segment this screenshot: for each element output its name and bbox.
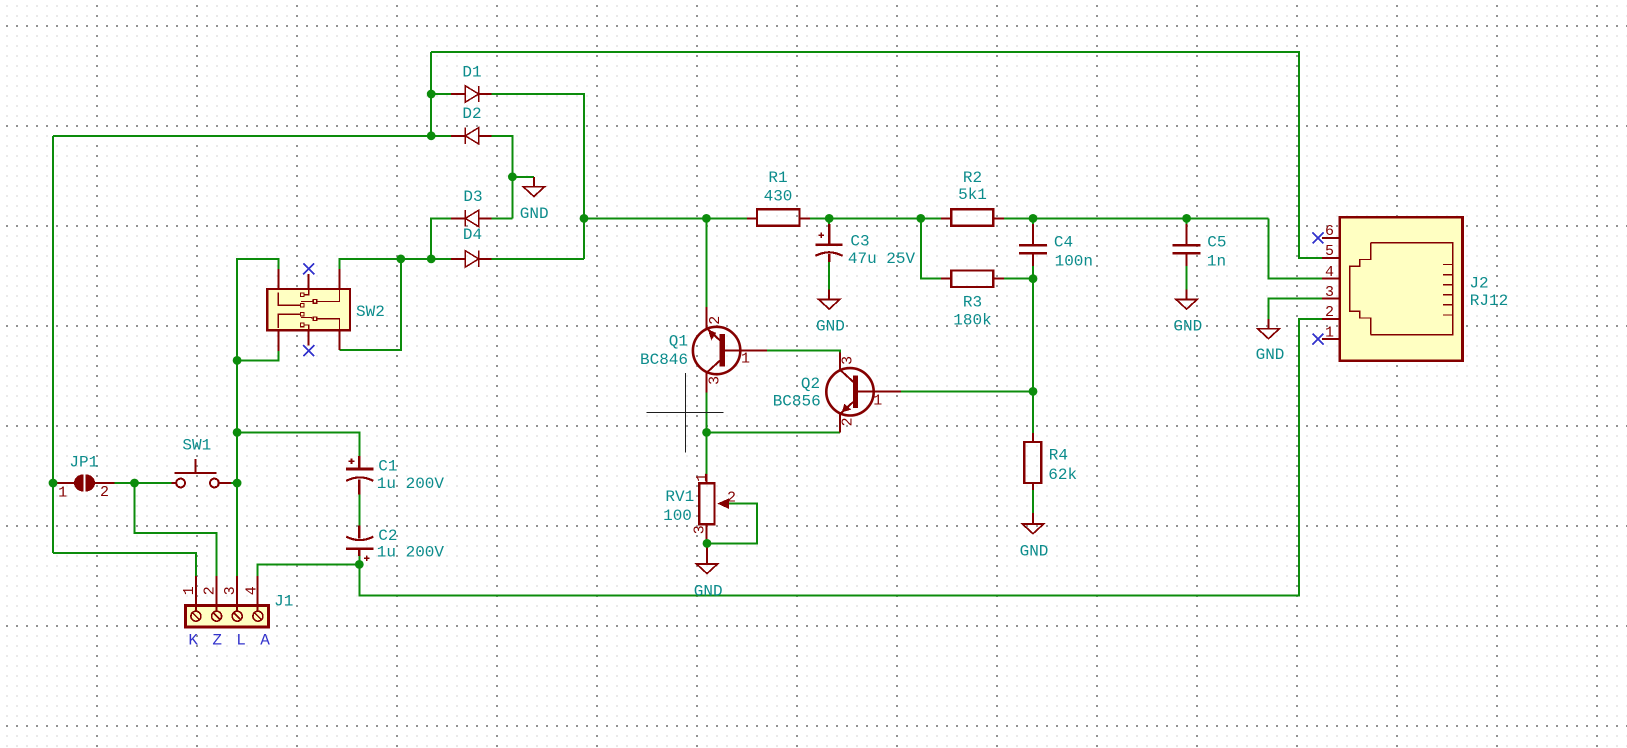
svg-text:1u 200V: 1u 200V: [377, 475, 445, 493]
junction bus left end: [580, 214, 589, 223]
wire C5 top stub: [1186, 218, 1188, 224]
svg-text:6: 6: [1325, 223, 1334, 240]
svg-text:A: A: [260, 632, 270, 650]
svg-text:D1: D1: [462, 64, 481, 82]
diode D3: [451, 210, 492, 226]
ground at J2 pin3: [1258, 319, 1280, 339]
wire C5 bottom: [1186, 262, 1188, 289]
svg-text:3: 3: [839, 356, 856, 365]
wire main bus segment 3: [1004, 217, 1269, 219]
wire D2 right to gnd tap: [492, 136, 513, 219]
potentiometer RV1: [699, 474, 729, 539]
junction Q1 emitter rail: [702, 428, 711, 437]
wire top rail: [431, 52, 1322, 258]
wire left vertical to D1/D2: [430, 52, 432, 136]
wire C3 bottom: [828, 262, 830, 289]
svg-text:100n: 100n: [1055, 252, 1093, 270]
svg-text:R3: R3: [963, 294, 982, 312]
ground under C3: [819, 289, 840, 309]
junction bus / C4: [1029, 214, 1038, 223]
svg-text:47u 25V: 47u 25V: [848, 250, 916, 268]
svg-text:SW2: SW2: [356, 303, 385, 321]
wire Q1 base to Q2: [767, 350, 840, 352]
wire SW1 right to junction: [231, 482, 237, 484]
svg-text:C3: C3: [850, 233, 869, 251]
svg-text:1: 1: [58, 485, 67, 502]
svg-text:C1: C1: [378, 457, 397, 475]
wire Q2 base to junction: [901, 390, 1033, 392]
wire C3 top stub: [828, 218, 830, 224]
svg-text:100: 100: [663, 507, 692, 525]
svg-text:1: 1: [741, 351, 750, 368]
wire D3 right lead: [492, 217, 513, 219]
svg-text:R2: R2: [963, 169, 982, 187]
wire D2 left lead: [431, 135, 452, 137]
ground under R4: [1022, 524, 1043, 534]
svg-text:2: 2: [100, 484, 109, 501]
no-connect X on J2 pin6: [1313, 232, 1324, 243]
svg-text:2: 2: [202, 586, 219, 595]
no-connect X above SW2: [303, 263, 314, 274]
jumper JP1: [53, 474, 115, 491]
resistor R3: [941, 271, 1004, 288]
svg-text:1: 1: [181, 586, 198, 595]
svg-text:GND: GND: [816, 317, 845, 335]
svg-text:C5: C5: [1207, 233, 1226, 251]
cursor crosshair: [646, 373, 723, 453]
wire Q1 emitter down: [706, 392, 708, 432]
junction D2 anode column: [427, 131, 436, 140]
svg-text:RJ12: RJ12: [1470, 292, 1508, 310]
svg-text:SW1: SW1: [182, 436, 211, 454]
wire SW2 right loop down: [340, 259, 401, 350]
diode D4: [451, 251, 492, 267]
junction SW2 left loop: [233, 356, 242, 365]
wire R3 right stub: [1004, 278, 1033, 280]
svg-text:GND: GND: [520, 205, 549, 223]
svg-text:K: K: [188, 632, 198, 650]
switch SW1: [172, 459, 232, 487]
wire down to RV1: [706, 432, 708, 474]
svg-text:R1: R1: [768, 169, 787, 187]
wire bus end to J2 pin4: [1268, 218, 1322, 278]
junction bus / Q1 collector: [702, 214, 711, 223]
junction bus / C3: [825, 214, 834, 223]
wire D1 left: [431, 93, 452, 95]
junction RV1 wiper return: [703, 539, 712, 548]
wire far-left vertical: [52, 136, 54, 553]
wire C2 bottom: [358, 556, 360, 564]
svg-text:5k1: 5k1: [958, 186, 987, 204]
wire D4 right: [492, 258, 584, 260]
wire bottom rail to J2 pin2: [359, 319, 1322, 595]
svg-text:RV1: RV1: [665, 488, 694, 506]
svg-text:2: 2: [1325, 304, 1334, 321]
transistor Q1 BC846: [693, 307, 767, 392]
capacitor C5: [1173, 224, 1201, 266]
wire SW2 bottom-left loop: [237, 351, 278, 360]
svg-text:J2: J2: [1469, 275, 1488, 293]
wire C4 bottom stub: [1032, 266, 1034, 279]
svg-text:Q2: Q2: [801, 375, 820, 393]
svg-text:GND: GND: [1020, 543, 1049, 561]
wire C2 junction to J1 pin4: [258, 564, 360, 576]
svg-text:4: 4: [1325, 264, 1334, 281]
svg-text:GND: GND: [1173, 318, 1202, 336]
svg-text:D3: D3: [463, 188, 482, 206]
svg-text:D4: D4: [463, 226, 482, 244]
junction D4 row / SW2 loop: [396, 255, 405, 264]
wire D3 left corner: [431, 218, 452, 259]
wire C1-C2 link: [358, 494, 360, 525]
no-connect X on J2 pin1: [1313, 334, 1324, 345]
wire RV1 bottom to junction: [705, 539, 707, 543]
no-connect X below SW2: [303, 345, 314, 356]
svg-text:3: 3: [1325, 284, 1334, 301]
svg-text:GND: GND: [1256, 346, 1285, 364]
svg-text:C2: C2: [378, 527, 397, 545]
wire D2 row to far left: [53, 135, 431, 137]
wire Q1 collector: [705, 218, 707, 307]
wire J2 pin3 to gnd: [1269, 299, 1323, 319]
svg-text:L: L: [236, 632, 246, 650]
svg-text:3: 3: [692, 525, 709, 534]
svg-text:1n: 1n: [1207, 252, 1226, 270]
wire C4 to Q2-collector junction: [1032, 279, 1034, 392]
connector J1: [185, 576, 268, 627]
svg-text:J1: J1: [274, 593, 293, 611]
ground under RV1: [696, 543, 717, 573]
svg-text:2: 2: [707, 316, 724, 325]
relay switch SW2: [267, 269, 350, 351]
wire main bus segment 2: [810, 217, 942, 219]
wire junction to R4: [1032, 391, 1034, 433]
svg-text:62k: 62k: [1048, 466, 1077, 484]
svg-text:BC856: BC856: [773, 393, 821, 411]
capacitor C2: [346, 526, 373, 561]
capacitor C3: [816, 224, 843, 262]
junction bus / C5: [1182, 214, 1191, 223]
wire emitter rail to Q2: [707, 431, 840, 433]
junction C4 / R3: [1029, 274, 1038, 283]
wire JP1 to SW1: [115, 482, 172, 484]
svg-text:BC846: BC846: [640, 351, 688, 369]
wire C4 top stub: [1032, 218, 1034, 224]
resistor R4: [1024, 433, 1041, 524]
svg-text:R4: R4: [1049, 447, 1068, 465]
junction D4 anode: [427, 255, 436, 264]
resistor R1: [747, 209, 810, 226]
junction D1 anode column: [427, 90, 436, 99]
wire SW2 top-right loop: [340, 259, 401, 269]
svg-text:3: 3: [707, 376, 724, 385]
wire R3 branch: [921, 218, 941, 278]
wire C1 top rail: [237, 432, 359, 456]
wire SW2 top-left loop: [237, 259, 278, 576]
svg-text:1: 1: [873, 393, 882, 410]
wire main bus segment 1: [584, 217, 747, 219]
junction bus / R2-R3: [916, 214, 925, 223]
ground under C5: [1176, 289, 1197, 309]
wire RV1 wiper loop: [707, 504, 757, 544]
svg-text:C4: C4: [1054, 233, 1073, 251]
junction C2 bottom: [355, 560, 364, 569]
capacitor C1: [346, 456, 373, 494]
wire D1 right to bus: [492, 94, 584, 259]
svg-text:1: 1: [1325, 324, 1334, 341]
svg-text:Z: Z: [212, 632, 222, 650]
junction JP1-SW1: [130, 479, 139, 488]
svg-text:2: 2: [727, 489, 736, 506]
svg-text:Q1: Q1: [669, 333, 688, 351]
junction C1 rail: [233, 428, 242, 437]
svg-text:3: 3: [222, 586, 239, 595]
svg-text:430: 430: [764, 188, 793, 206]
svg-text:2: 2: [839, 417, 856, 426]
junction GND tap: [508, 172, 517, 181]
wire gnd tap stub: [512, 176, 534, 178]
resistor R2: [941, 209, 1004, 226]
ground near D2: [523, 177, 544, 197]
svg-text:D2: D2: [462, 105, 481, 123]
svg-text:5: 5: [1325, 243, 1334, 260]
junction Q2 collector / R4: [1029, 387, 1038, 396]
connector J2 RJ12: [1322, 217, 1463, 360]
diode D1: [451, 86, 492, 102]
diode D2: [451, 128, 492, 144]
svg-text:1: 1: [694, 473, 711, 482]
svg-text:JP1: JP1: [69, 454, 98, 472]
junction SW1 right: [233, 479, 242, 488]
svg-text:180k: 180k: [953, 311, 991, 329]
svg-text:1u 200V: 1u 200V: [377, 544, 445, 562]
junction JP1 pin1: [49, 479, 58, 488]
transistor Q2 BC856: [826, 353, 901, 433]
wire to J1 pin1: [53, 553, 196, 576]
wire jct to J1 pin2: [135, 483, 217, 576]
svg-text:GND: GND: [694, 583, 723, 601]
capacitor C4: [1019, 224, 1047, 266]
svg-text:4: 4: [244, 586, 261, 595]
wire D4 junction row: [401, 258, 452, 260]
